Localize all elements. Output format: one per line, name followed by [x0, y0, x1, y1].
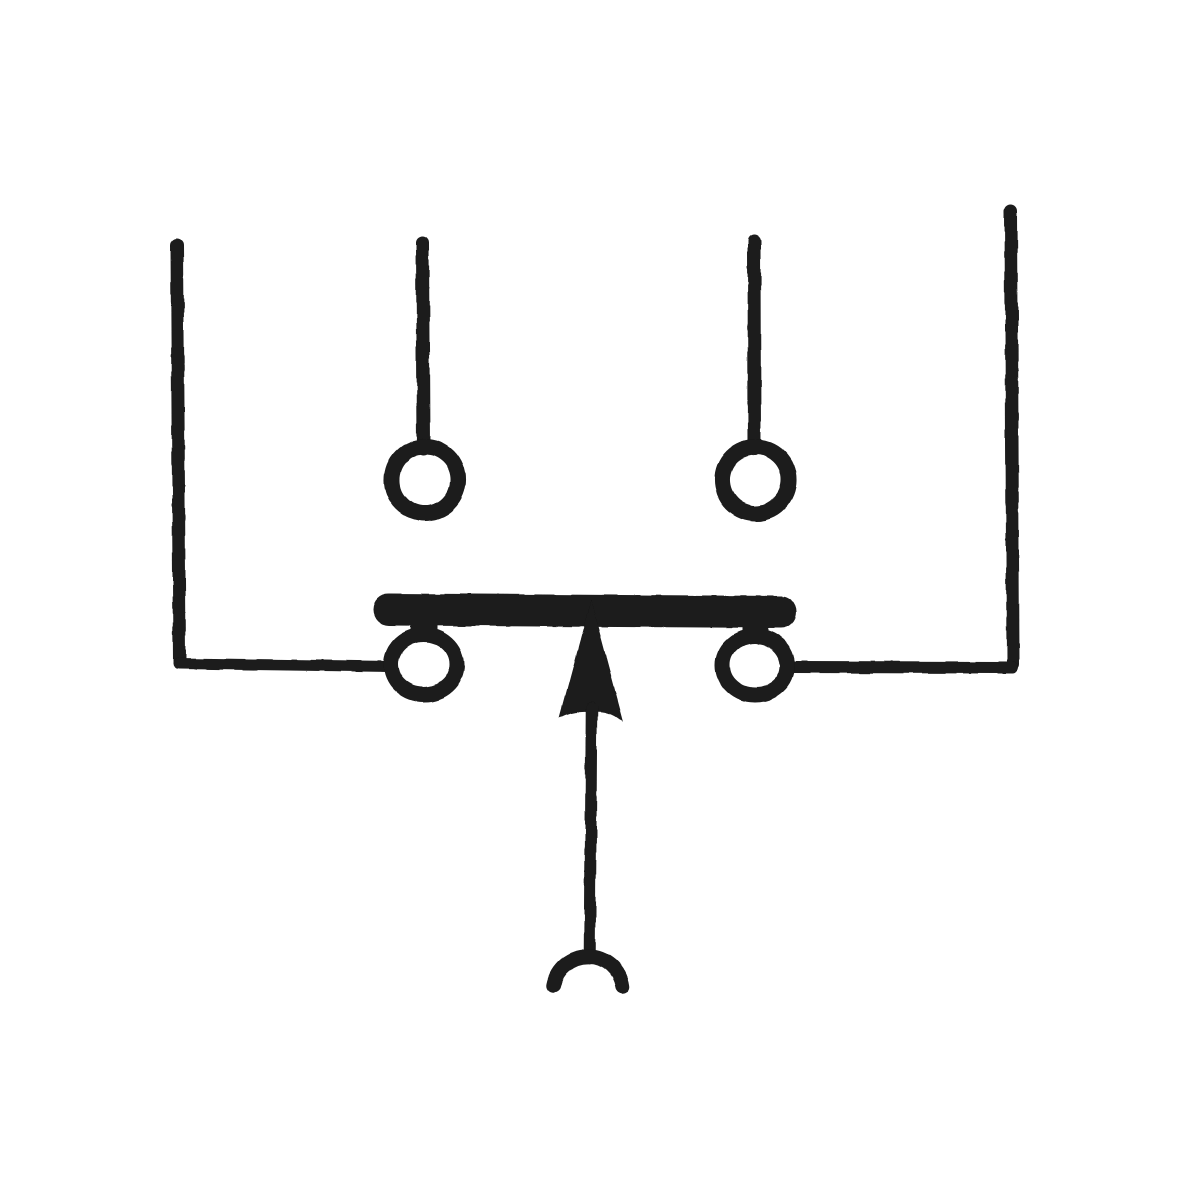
actuator shaft — [590, 708, 592, 951]
wire upper-right fixed contact lead — [748, 241, 762, 449]
wire left terminal horizontal run to left roller — [179, 664, 393, 667]
actuator arrowhead — [560, 600, 624, 722]
wire upper-left fixed contact lead — [423, 243, 424, 449]
junction fillet bar to right roller — [742, 622, 768, 634]
wire left terminal vertical — [177, 245, 180, 661]
node upper-left fixed contact ring — [392, 447, 459, 514]
movable bridging bar — [389, 610, 781, 613]
actuator fork arc — [554, 957, 623, 987]
node upper-right fixed contact ring — [722, 447, 789, 514]
node lower-right bridge roller ring — [723, 636, 788, 695]
wire right terminal horizontal run from right roller — [792, 661, 1013, 674]
wire right terminal vertical — [1011, 211, 1013, 664]
junction fillet bar to left roller — [411, 620, 437, 632]
node lower-left bridge roller ring — [391, 635, 457, 695]
